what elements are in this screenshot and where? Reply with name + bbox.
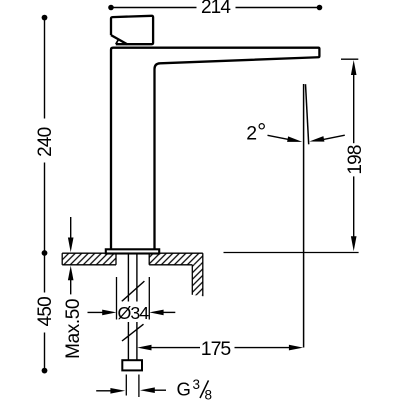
dimension 240 left: [35, 15, 56, 253]
faucet body and spout outline: [111, 48, 319, 249]
pipe break slash upper: [122, 281, 145, 301]
svg-text:2°: 2°: [246, 118, 266, 144]
water stream 2-degree line: [306, 84, 309, 144]
svg-text:175: 175: [201, 338, 232, 360]
dimension 175: [137, 338, 303, 360]
dimension Max.50 counter thickness: [63, 217, 84, 359]
dimension G 3/8 connector thread: [96, 375, 212, 400]
svg-text:450: 450: [35, 297, 56, 327]
counter slab right section with downturn (hatched L): [149, 253, 203, 296]
dimension D34 hole diameter: [88, 277, 176, 323]
counter slab left section (hatched): [62, 253, 116, 265]
faucet base plate: [106, 249, 159, 253]
svg-text:8: 8: [205, 388, 213, 400]
svg-text:240: 240: [35, 127, 56, 157]
svg-text:198: 198: [345, 145, 366, 175]
dimension 450 left lower: [35, 250, 56, 373]
faucet handle: [111, 16, 153, 44]
svg-text:3: 3: [193, 377, 201, 392]
supply pipes: [122, 254, 145, 360]
2 degree angle label and leaders: [246, 118, 344, 144]
pipe break slash lower: [122, 324, 144, 341]
G3/8 connector block: [122, 360, 142, 370]
basin reference line: [224, 252, 359, 254]
svg-text:Ø34: Ø34: [117, 303, 149, 323]
dimension 214 top: [108, 0, 322, 18]
svg-text:G: G: [177, 379, 191, 400]
dimension 198 right: [341, 59, 366, 251]
water stream plumb line: [303, 84, 305, 348]
svg-text:Max.50: Max.50: [63, 299, 84, 359]
svg-text:214: 214: [201, 0, 231, 18]
